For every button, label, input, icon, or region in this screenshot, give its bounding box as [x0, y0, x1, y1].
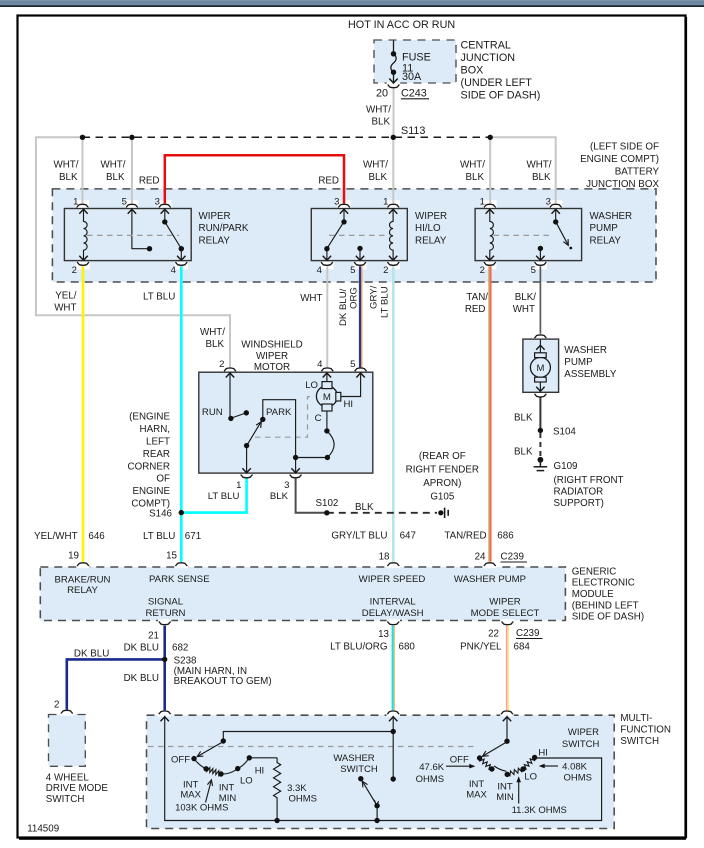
- svg-text:PUMP: PUMP: [590, 223, 619, 234]
- svg-text:WASHER: WASHER: [564, 345, 607, 356]
- svg-text:OHMS: OHMS: [564, 773, 593, 784]
- svg-text:RELAY: RELAY: [199, 235, 231, 246]
- svg-text:MOTOR: MOTOR: [254, 362, 290, 373]
- svg-text:S104: S104: [553, 427, 576, 438]
- svg-text:LEFT: LEFT: [146, 437, 170, 448]
- svg-text:18: 18: [379, 552, 390, 563]
- svg-text:OHMS: OHMS: [416, 774, 445, 785]
- svg-text:WIPER: WIPER: [415, 211, 447, 222]
- svg-text:OFF: OFF: [171, 755, 190, 766]
- svg-text:WHT/: WHT/: [363, 160, 388, 171]
- svg-text:HARN,: HARN,: [140, 424, 170, 435]
- svg-text:4: 4: [317, 359, 323, 370]
- svg-text:LT BLU: LT BLU: [143, 531, 175, 542]
- svg-text:(REAR OF: (REAR OF: [419, 451, 466, 462]
- svg-text:DK BLU: DK BLU: [124, 643, 159, 654]
- svg-text:LO: LO: [240, 776, 253, 787]
- svg-text:3.3K: 3.3K: [287, 783, 307, 794]
- svg-text:BLK: BLK: [355, 502, 374, 513]
- svg-text:G105: G105: [430, 492, 455, 503]
- svg-text:INT: INT: [497, 782, 513, 793]
- svg-text:5: 5: [122, 197, 127, 208]
- svg-text:WHT/: WHT/: [53, 160, 78, 171]
- svg-text:MULTI-: MULTI-: [620, 713, 652, 724]
- svg-text:INT: INT: [469, 779, 485, 790]
- svg-text:REAR: REAR: [143, 449, 170, 460]
- svg-text:686: 686: [497, 531, 514, 542]
- svg-text:BLK/: BLK/: [515, 292, 537, 303]
- svg-text:BLK: BLK: [59, 172, 78, 183]
- svg-text:GRY/: GRY/: [369, 285, 380, 309]
- svg-text:CORNER: CORNER: [128, 461, 170, 472]
- svg-text:5: 5: [350, 265, 355, 276]
- svg-text:SUPPORT): SUPPORT): [554, 498, 604, 509]
- svg-text:ORG: ORG: [349, 287, 360, 309]
- svg-text:22: 22: [488, 629, 499, 640]
- svg-text:RUN: RUN: [202, 407, 223, 418]
- svg-text:RED: RED: [139, 176, 160, 187]
- svg-text:M: M: [323, 392, 331, 403]
- svg-text:BLK: BLK: [270, 491, 289, 502]
- svg-text:M: M: [536, 363, 544, 374]
- svg-text:WHT/: WHT/: [100, 160, 125, 171]
- svg-text:BLK: BLK: [532, 172, 551, 183]
- svg-text:3: 3: [546, 197, 551, 208]
- svg-text:680: 680: [399, 642, 416, 653]
- svg-text:19: 19: [68, 551, 79, 562]
- svg-text:WIPER: WIPER: [568, 727, 599, 738]
- svg-text:RED: RED: [318, 176, 339, 187]
- svg-text:SIGNAL: SIGNAL: [148, 597, 184, 608]
- svg-text:RIGHT FENDER: RIGHT FENDER: [406, 465, 479, 476]
- svg-text:BRAKE/RUN: BRAKE/RUN: [55, 575, 111, 586]
- svg-text:RUN/PARK: RUN/PARK: [199, 223, 249, 234]
- svg-text:LT BLU: LT BLU: [143, 292, 175, 303]
- svg-text:BLK: BLK: [106, 172, 125, 183]
- svg-text:2: 2: [219, 359, 224, 370]
- svg-text:BLK: BLK: [514, 446, 533, 457]
- svg-text:HI: HI: [344, 399, 354, 410]
- svg-text:S146: S146: [149, 509, 172, 520]
- svg-text:OF: OF: [156, 474, 170, 485]
- svg-text:3: 3: [284, 480, 289, 491]
- svg-text:2: 2: [72, 265, 77, 276]
- svg-text:YEL/WHT: YEL/WHT: [34, 531, 78, 542]
- svg-text:4 WHEEL: 4 WHEEL: [46, 773, 90, 784]
- svg-text:WHT/: WHT/: [366, 105, 391, 116]
- svg-text:BLK: BLK: [371, 117, 390, 128]
- svg-text:DK BLU/: DK BLU/: [338, 288, 349, 326]
- svg-text:TAN/RED: TAN/RED: [444, 531, 486, 542]
- svg-text:21: 21: [148, 631, 159, 642]
- svg-text:BOX: BOX: [461, 65, 484, 77]
- svg-text:(RIGHT FRONT: (RIGHT FRONT: [554, 475, 624, 486]
- svg-text:MIN: MIN: [496, 792, 514, 803]
- svg-text:MAX: MAX: [180, 790, 201, 801]
- svg-text:4: 4: [171, 265, 177, 276]
- svg-text:WIPER: WIPER: [199, 211, 231, 222]
- svg-text:(ENGINE: (ENGINE: [129, 412, 170, 423]
- svg-text:1: 1: [73, 197, 78, 208]
- svg-text:SWITCH: SWITCH: [620, 736, 659, 747]
- svg-text:WIPER SPEED: WIPER SPEED: [359, 574, 426, 585]
- svg-text:OFF: OFF: [450, 755, 469, 766]
- svg-text:RED: RED: [465, 304, 486, 315]
- svg-text:2: 2: [54, 700, 59, 711]
- svg-text:11.3K OHMS: 11.3K OHMS: [512, 805, 567, 816]
- svg-text:(UNDER LEFT: (UNDER LEFT: [461, 77, 533, 89]
- svg-text:682: 682: [172, 643, 188, 654]
- svg-text:684: 684: [514, 642, 531, 653]
- svg-text:DELAY/WASH: DELAY/WASH: [362, 608, 424, 619]
- svg-text:S113: S113: [401, 125, 425, 137]
- svg-text:1: 1: [383, 197, 388, 208]
- svg-text:PARK SENSE: PARK SENSE: [149, 574, 210, 585]
- svg-text:GENERIC: GENERIC: [572, 567, 617, 578]
- svg-text:1: 1: [236, 480, 241, 491]
- svg-text:S102: S102: [316, 498, 339, 509]
- svg-text:G109: G109: [554, 461, 578, 472]
- svg-text:20: 20: [376, 88, 388, 100]
- svg-text:SWITCH: SWITCH: [340, 764, 378, 775]
- svg-text:5: 5: [350, 359, 355, 370]
- svg-text:HI: HI: [255, 766, 265, 777]
- svg-text:C243: C243: [401, 88, 427, 100]
- svg-text:SWITCH: SWITCH: [562, 739, 600, 750]
- svg-text:WINDSHIELD: WINDSHIELD: [241, 340, 303, 351]
- svg-text:WIPER: WIPER: [489, 597, 521, 608]
- svg-text:DK BLU: DK BLU: [124, 673, 159, 684]
- svg-text:MODULE: MODULE: [572, 589, 614, 600]
- svg-text:BATTERY: BATTERY: [615, 167, 660, 178]
- svg-text:JUNCTION: JUNCTION: [461, 52, 516, 64]
- svg-text:HI/LO: HI/LO: [415, 223, 441, 234]
- svg-text:DRIVE MODE: DRIVE MODE: [46, 783, 109, 794]
- svg-text:ENGINE COMPT): ENGINE COMPT): [580, 154, 659, 165]
- svg-text:2: 2: [480, 265, 485, 276]
- svg-text:ASSEMBLY: ASSEMBLY: [564, 369, 617, 380]
- svg-text:RELAY: RELAY: [590, 235, 622, 246]
- svg-text:WHT: WHT: [300, 293, 322, 304]
- svg-text:4: 4: [317, 265, 323, 276]
- svg-text:2: 2: [383, 265, 388, 276]
- svg-text:WHT: WHT: [54, 303, 76, 314]
- svg-text:WASHER: WASHER: [590, 211, 633, 222]
- svg-text:HOT IN ACC OR RUN: HOT IN ACC OR RUN: [348, 19, 455, 31]
- svg-text:LT BLU: LT BLU: [208, 491, 240, 502]
- svg-text:HI: HI: [538, 748, 548, 759]
- svg-text:BLK: BLK: [465, 172, 484, 183]
- svg-text:RETURN: RETURN: [146, 608, 186, 619]
- svg-text:13: 13: [378, 629, 389, 640]
- svg-text:BLK: BLK: [514, 413, 533, 424]
- svg-text:(BEHIND LEFT: (BEHIND LEFT: [572, 601, 639, 612]
- svg-text:WASHER PUMP: WASHER PUMP: [454, 574, 526, 585]
- svg-text:15: 15: [166, 551, 177, 562]
- svg-text:APRON): APRON): [423, 478, 461, 489]
- svg-text:WHT/: WHT/: [526, 160, 551, 171]
- svg-text:3: 3: [334, 197, 339, 208]
- svg-text:RADIATOR: RADIATOR: [554, 487, 604, 498]
- svg-text:BREAKOUT TO GEM): BREAKOUT TO GEM): [174, 676, 272, 687]
- svg-text:JUNCTION BOX: JUNCTION BOX: [586, 179, 659, 190]
- svg-text:TAN/: TAN/: [466, 292, 488, 303]
- svg-text:114509: 114509: [27, 824, 59, 835]
- svg-text:WIPER: WIPER: [256, 351, 288, 362]
- svg-text:1: 1: [480, 197, 485, 208]
- svg-text:(LEFT SIDE OF: (LEFT SIDE OF: [590, 142, 659, 153]
- svg-text:YEL/: YEL/: [55, 291, 77, 302]
- svg-text:103K OHMS: 103K OHMS: [175, 803, 228, 814]
- svg-text:WHT/: WHT/: [200, 327, 225, 338]
- svg-text:30A: 30A: [402, 71, 422, 83]
- svg-text:RELAY: RELAY: [67, 585, 98, 596]
- svg-text:BLK: BLK: [205, 339, 224, 350]
- svg-text:PARK: PARK: [266, 407, 292, 418]
- svg-text:4.08K: 4.08K: [562, 762, 587, 773]
- svg-text:GRY/LT BLU: GRY/LT BLU: [331, 531, 387, 542]
- svg-text:5: 5: [531, 265, 536, 276]
- svg-text:SIDE OF DASH): SIDE OF DASH): [461, 90, 541, 102]
- svg-text:WHT: WHT: [513, 304, 535, 315]
- svg-text:C239: C239: [516, 628, 539, 639]
- svg-text:ELECTRONIC: ELECTRONIC: [572, 578, 635, 589]
- svg-text:SIDE OF DASH): SIDE OF DASH): [572, 612, 644, 623]
- svg-text:FUNCTION: FUNCTION: [620, 725, 671, 736]
- svg-text:MODE SELECT: MODE SELECT: [471, 608, 540, 619]
- svg-text:LO: LO: [305, 380, 318, 391]
- svg-text:47.6K: 47.6K: [419, 762, 444, 773]
- svg-text:INTERVAL: INTERVAL: [370, 597, 417, 608]
- svg-text:671: 671: [185, 531, 201, 542]
- svg-text:DK BLU: DK BLU: [74, 649, 109, 660]
- svg-text:OHMS: OHMS: [289, 794, 318, 805]
- svg-text:CENTRAL: CENTRAL: [461, 40, 511, 52]
- svg-text:ENGINE: ENGINE: [132, 486, 170, 497]
- svg-text:LO: LO: [524, 772, 537, 783]
- svg-text:PNK/YEL: PNK/YEL: [460, 642, 502, 653]
- svg-text:SWITCH: SWITCH: [46, 794, 85, 805]
- svg-text:WHT/: WHT/: [460, 160, 485, 171]
- svg-text:BLK: BLK: [368, 172, 387, 183]
- svg-text:RELAY: RELAY: [415, 235, 447, 246]
- svg-text:LT BLU: LT BLU: [380, 286, 391, 318]
- svg-text:WASHER: WASHER: [333, 753, 374, 764]
- svg-text:LT BLU/ORG: LT BLU/ORG: [330, 642, 387, 653]
- svg-text:MAX: MAX: [466, 790, 487, 801]
- svg-text:C: C: [315, 413, 322, 424]
- svg-text:PUMP: PUMP: [564, 357, 593, 368]
- svg-text:646: 646: [88, 531, 105, 542]
- svg-text:3: 3: [155, 197, 160, 208]
- svg-text:647: 647: [400, 531, 416, 542]
- svg-text:24: 24: [475, 552, 486, 563]
- svg-text:C239: C239: [501, 552, 524, 563]
- svg-text:INT: INT: [219, 783, 235, 794]
